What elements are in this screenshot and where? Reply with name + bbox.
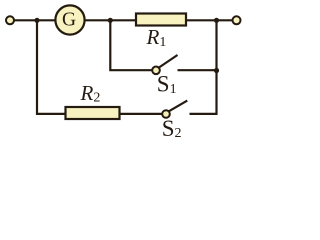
galvanometer G [55,5,84,34]
terminal right [233,16,241,24]
terminal left [6,16,14,24]
wire S1 branch left [110,20,152,70]
junction node left [34,18,39,23]
wire left vertical [37,20,65,114]
junction node right-top [214,18,219,23]
svg-text:S2: S2 [162,116,182,141]
wire bottom rail to S2 [64,113,162,115]
junction node mid [108,18,113,23]
junction node right-S1 [214,68,219,73]
switch S2 [162,101,187,118]
switch S1 [152,55,177,74]
wire S1 branch right [178,69,217,71]
wire top rail [10,19,237,21]
svg-text:S1: S1 [157,72,177,97]
svg-text:R2: R2 [80,81,101,106]
resistor R1 [136,14,186,26]
svg-text:R1: R1 [146,25,167,50]
wire right vertical [190,20,217,114]
svg-text:G: G [62,9,76,30]
resistor R2 [66,107,120,119]
